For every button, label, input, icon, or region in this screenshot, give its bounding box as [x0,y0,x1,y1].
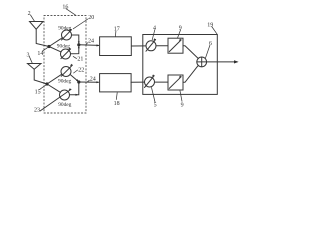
svg-text:22: 22 [78,67,84,73]
svg-text:3: 3 [27,52,30,58]
svg-text:20: 20 [88,15,94,21]
svg-text:21: 21 [77,57,83,63]
svg-text:17: 17 [114,27,120,33]
svg-text:9: 9 [181,102,184,108]
svg-text:90deg: 90deg [57,44,70,50]
svg-text:24: 24 [88,38,94,44]
svg-text:14: 14 [37,51,43,57]
svg-text:4: 4 [153,26,156,32]
svg-text:23: 23 [34,108,40,114]
svg-text:90deg: 90deg [58,25,71,31]
svg-text:2: 2 [28,11,31,17]
svg-text:6: 6 [209,41,212,47]
svg-text:90deg: 90deg [58,78,71,84]
svg-text:19: 19 [207,22,213,28]
svg-text:9: 9 [179,26,182,32]
svg-text:16: 16 [62,4,68,10]
svg-text:90deg: 90deg [58,102,71,108]
svg-text:24: 24 [90,77,96,83]
svg-text:15: 15 [35,89,41,95]
svg-text:5: 5 [154,102,157,108]
svg-text:18: 18 [114,101,120,107]
